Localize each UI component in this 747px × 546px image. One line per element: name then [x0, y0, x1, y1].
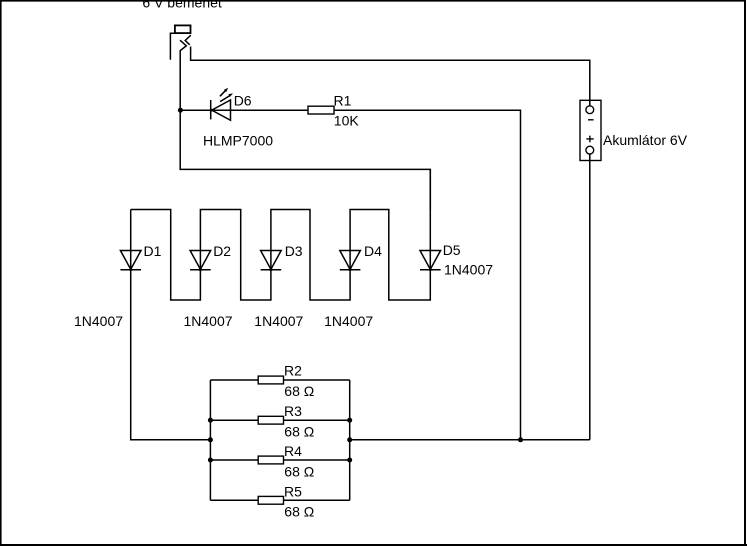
svg-text:1N4007: 1N4007 [74, 313, 123, 329]
svg-text:D6: D6 [234, 92, 252, 108]
svg-text:R2: R2 [284, 363, 302, 379]
svg-text:R5: R5 [284, 483, 302, 499]
svg-text:D2: D2 [213, 243, 231, 259]
svg-text:6 V bemenet: 6 V bemenet [142, 0, 221, 11]
svg-text:68 Ω: 68 Ω [284, 383, 314, 399]
svg-text:D4: D4 [364, 243, 382, 259]
svg-text:HLMP7000: HLMP7000 [203, 132, 273, 148]
svg-text:D1: D1 [144, 243, 162, 259]
svg-text:R1: R1 [334, 92, 352, 108]
svg-text:D5: D5 [443, 242, 461, 258]
svg-text:10K: 10K [334, 113, 360, 129]
svg-text:68 Ω: 68 Ω [284, 464, 314, 480]
svg-text:D3: D3 [285, 243, 303, 259]
svg-text:1N4007: 1N4007 [444, 261, 493, 277]
svg-text:R4: R4 [284, 443, 302, 459]
svg-text:1N4007: 1N4007 [254, 313, 303, 329]
svg-text:Akumlátor 6V: Akumlátor 6V [603, 132, 688, 148]
svg-text:68 Ω: 68 Ω [284, 423, 314, 439]
svg-text:1N4007: 1N4007 [324, 313, 373, 329]
svg-text:1N4007: 1N4007 [184, 313, 233, 329]
svg-text:68 Ω: 68 Ω [284, 504, 314, 520]
svg-text:R3: R3 [284, 403, 302, 419]
